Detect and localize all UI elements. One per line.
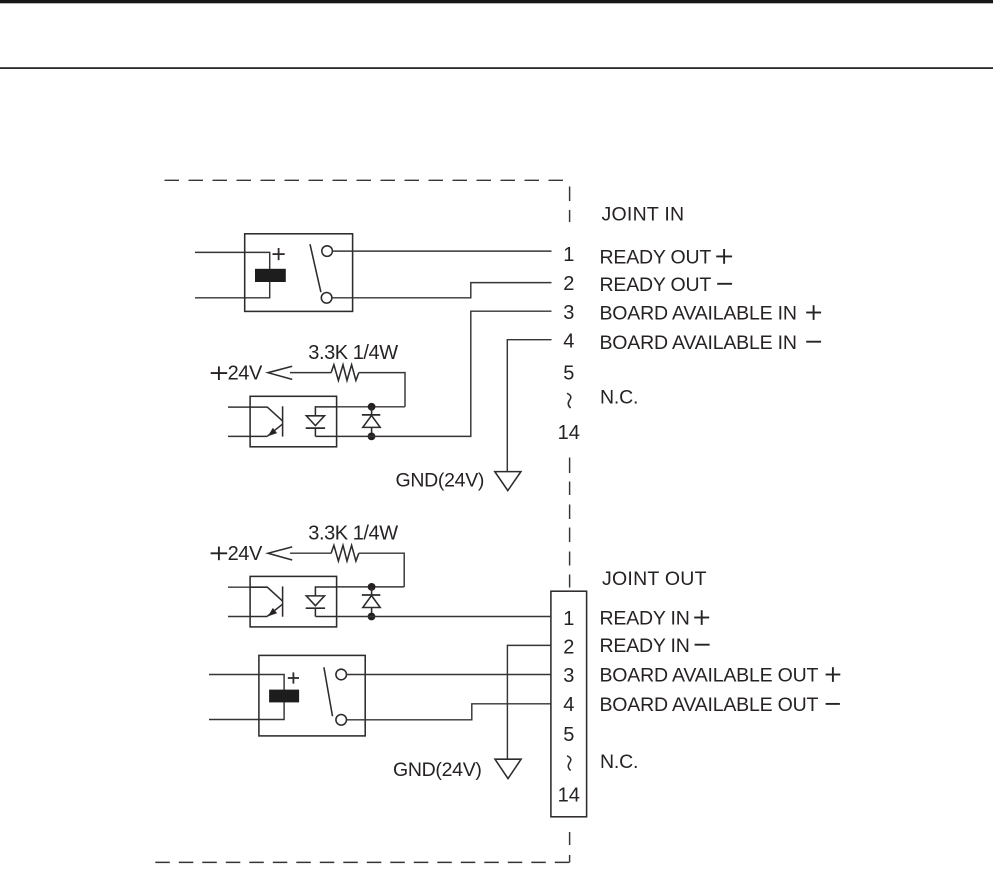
svg-text:3.3K 1/4W: 3.3K 1/4W	[308, 522, 398, 544]
wire: R2 to node B	[359, 553, 404, 587]
svg-text:24V: 24V	[228, 543, 263, 565]
resistor R1 (3.3K 1/4W)	[331, 365, 359, 381]
svg-text:1: 1	[563, 244, 574, 266]
wire: PC1 emitter net to JOINT IN pin 3	[337, 311, 552, 436]
svg-text:3.3K 1/4W: 3.3K 1/4W	[308, 342, 398, 364]
svg-text:BOARD AVAILABLE OUT: BOARD AVAILABLE OUT	[600, 694, 819, 716]
svg-text:1: 1	[563, 608, 574, 630]
svg-text:JOINT OUT: JOINT OUT	[602, 568, 707, 590]
label: +24V supply (lower)	[211, 543, 263, 565]
pins 6-13 ellipsis squiggle (JOINT IN)	[567, 393, 571, 408]
wire: RY2 contact to JOINT OUT pin 4	[347, 704, 551, 720]
junction dot: D2 anode / PC2 emitter net	[368, 613, 376, 621]
svg-text:5: 5	[563, 362, 574, 384]
wire: relay RY2 coil leads	[209, 675, 284, 720]
wire: RY2 contact to JOINT OUT pin 3	[347, 674, 551, 676]
svg-text:READY OUT: READY OUT	[600, 274, 712, 296]
wire: +24V feed to resistor R1	[290, 372, 331, 374]
svg-text:JOINT IN: JOINT IN	[602, 203, 685, 225]
svg-text:GND(24V): GND(24V)	[393, 759, 482, 781]
wire: R1 to node A	[359, 373, 405, 407]
wire: PC1 input leads	[228, 407, 250, 436]
wire: RY1 contact to JOINT IN pin 1	[332, 250, 551, 252]
junction dot: node A	[368, 403, 376, 411]
connector body (JOINT OUT)	[551, 591, 587, 817]
svg-text:READY IN: READY IN	[600, 635, 690, 657]
ground GND(24V)	[495, 472, 521, 491]
svg-text:3: 3	[563, 302, 574, 324]
junction dot: D1 anode / PC1 emitter net	[368, 433, 376, 441]
wire: relay RY1 coil leads	[195, 252, 270, 297]
+24V supply arrow	[268, 366, 292, 379]
svg-text:READY IN: READY IN	[600, 608, 690, 630]
wire: PC2 input leads	[228, 587, 250, 616]
wire: RY1 contact to JOINT IN pin 2	[332, 283, 552, 298]
optocoupler PC1	[250, 396, 337, 447]
svg-text:2: 2	[563, 636, 574, 658]
wire: JOINT OUT pin 2 to ground	[507, 645, 551, 759]
wire: node A (PC1 collector / D1 cathode / R1)	[337, 406, 405, 408]
label: +24V supply	[211, 363, 263, 385]
wire: node B (PC2 collector / D2 cathode / R2)	[337, 586, 405, 588]
svg-text:4: 4	[563, 331, 574, 353]
resistor R2 (3.3K 1/4W)	[331, 545, 359, 561]
wire: PC2 emitter net to JOINT OUT pin 1	[337, 616, 551, 618]
dashed interface boundary	[155, 180, 570, 862]
svg-text:N.C.: N.C.	[600, 751, 638, 773]
svg-text:24V: 24V	[228, 363, 263, 385]
diode D1 (protection diode)	[362, 407, 380, 437]
junction dot: node B	[368, 583, 376, 591]
svg-text:14: 14	[558, 422, 580, 444]
svg-text:N.C.: N.C.	[600, 386, 638, 408]
svg-text:BOARD AVAILABLE IN: BOARD AVAILABLE IN	[600, 332, 797, 354]
wire: JOINT IN pin 4 to ground	[507, 340, 551, 472]
svg-text:14: 14	[558, 785, 580, 807]
diode D2 (protection diode)	[362, 587, 380, 617]
pins 6-13 ellipsis squiggle (JOINT OUT)	[567, 756, 571, 771]
svg-text:BOARD AVAILABLE OUT: BOARD AVAILABLE OUT	[600, 665, 819, 687]
optocoupler PC2	[250, 576, 337, 627]
ground GND(24V) (lower)	[495, 759, 521, 778]
+24V supply arrow (lower)	[268, 547, 292, 560]
svg-text:BOARD AVAILABLE IN: BOARD AVAILABLE IN	[600, 303, 797, 325]
svg-text:4: 4	[563, 694, 574, 716]
relay RY2 (BOARD AVAILABLE OUT contact)	[259, 655, 365, 736]
svg-text:3: 3	[563, 665, 574, 687]
wire: +24V feed to resistor R2	[290, 552, 331, 554]
svg-text:2: 2	[563, 273, 574, 295]
svg-text:5: 5	[563, 724, 574, 746]
svg-text:READY OUT: READY OUT	[600, 246, 712, 268]
svg-text:GND(24V): GND(24V)	[396, 469, 485, 491]
relay RY1 (READY OUT contact)	[245, 234, 353, 312]
